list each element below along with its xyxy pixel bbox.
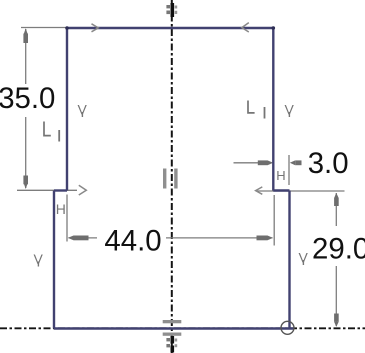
sketch point circle bottom-right <box>281 321 294 334</box>
svg-text:29.0: 29.0 <box>312 233 365 266</box>
svg-text:H: H <box>56 201 66 217</box>
dimension 3.0 left arrow <box>268 160 274 165</box>
direction arrow on top edge right (open, left-pointing) <box>242 23 249 32</box>
dimension 44.0 dimension line <box>69 237 98 239</box>
bottom edge <box>54 327 294 329</box>
right step horizontal <box>273 189 289 191</box>
dimension 29.0 dimension line <box>335 193 337 226</box>
direction arrow on top edge left (open, right-pointing) <box>92 24 99 32</box>
horizontal construction centerline <box>0 327 365 329</box>
dimension 29.0 bottom arrow <box>334 322 339 327</box>
left step horizontal <box>54 189 67 191</box>
dimension 44.0 right arrow <box>268 236 273 241</box>
dimension 35.0 dimension line <box>25 29 27 84</box>
right inner vertical <box>272 28 274 191</box>
dimension 3.0 dimension line left <box>234 162 267 164</box>
dimension 35.0 top arrow <box>24 28 28 33</box>
svg-text:3.0: 3.0 <box>308 147 349 180</box>
dimension 29.0 top extension line <box>257 190 345 192</box>
symmetry constraint bars at centerline middle <box>163 169 166 189</box>
vertex dot top-right <box>272 26 276 30</box>
dimension 35.0 bottom arrow <box>24 184 28 189</box>
anchor glyph bottom of centerline <box>171 336 175 344</box>
direction arrow on left step (open, right-pointing) <box>79 185 87 195</box>
svg-text:44.0: 44.0 <box>104 225 161 258</box>
top edge <box>67 27 273 29</box>
symmetry constraint bars at bottom crossing <box>163 320 182 323</box>
vertex dot top-left <box>65 26 69 30</box>
left outer vertical <box>53 191 55 329</box>
constraint label L with tick (right) <box>248 101 255 113</box>
dimension 44.0 left arrow <box>68 236 74 241</box>
right outer vertical <box>288 191 290 329</box>
dimension 3.0 right arrow <box>290 160 295 165</box>
dimension 29.0 top arrow <box>334 193 339 198</box>
svg-text:H: H <box>276 168 285 183</box>
constraint label L with tick (left) <box>44 122 51 136</box>
dimension 35.0 top extension line <box>21 27 66 29</box>
direction arrow on right step (open, left-pointing) <box>256 187 263 194</box>
dimension 35.0 bottom extension line <box>17 189 77 191</box>
svg-text:35.0: 35.0 <box>0 82 55 115</box>
dimension 44.0 right extension line <box>273 195 275 246</box>
left inner vertical <box>66 28 68 191</box>
dimension 44.0 left extension line <box>66 195 68 242</box>
anchor glyph top of centerline <box>171 3 175 17</box>
vertical construction centerline <box>171 0 173 353</box>
dimension 3.0 right extension line <box>288 155 290 185</box>
